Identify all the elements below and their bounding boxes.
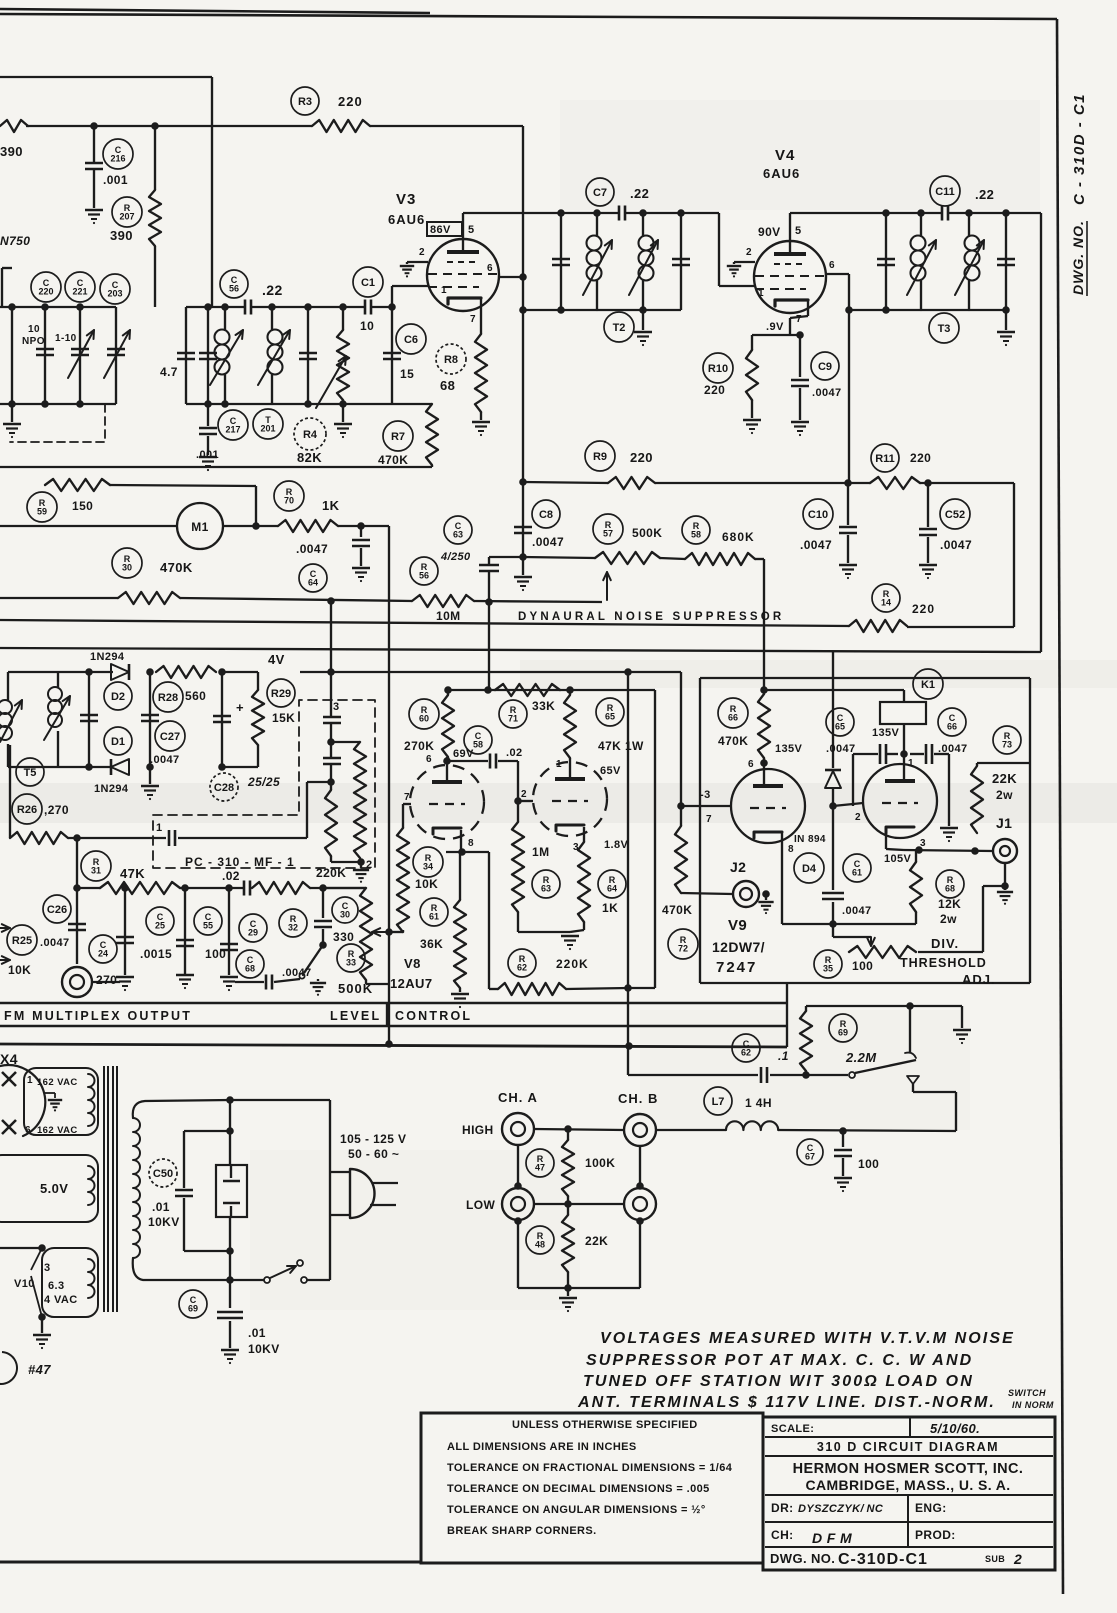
wire group2 bottom y404 [186, 403, 432, 405]
node 2 terminal [357, 858, 365, 866]
ground [317, 979, 319, 981]
variable resistor R4 82K [342, 307, 344, 330]
svg-text:V9: V9 [728, 917, 747, 934]
svg-text:100: 100 [858, 1157, 879, 1171]
capacitor C8 .0047 [514, 526, 532, 529]
resistor R73 22K 2W [971, 766, 983, 833]
svg-text:IN NORM: IN NORM [1012, 1400, 1054, 1410]
svg-text:C26: C26 [47, 904, 67, 916]
svg-text:NPO: NPO [22, 336, 45, 347]
svg-text:67: 67 [805, 1152, 815, 1162]
resistor R11 220 [870, 477, 920, 489]
jack CH.A low [502, 1188, 534, 1220]
svg-text:.0047: .0047 [940, 538, 972, 552]
capacitor C61 .0047 [822, 892, 844, 895]
wire y598 to R56 [180, 598, 412, 601]
svg-text:1K: 1K [322, 498, 340, 513]
wire long vertical x389 [388, 526, 390, 1044]
svg-text:63: 63 [453, 530, 463, 540]
T2 variable inductor [593, 209, 601, 217]
svg-text:7: 7 [470, 314, 476, 325]
svg-text:TOLERANCE ON ANGULAR DIMENSION: TOLERANCE ON ANGULAR DIMENSIONS = ½° [447, 1504, 706, 1516]
wire C63 column to V8 grid row [488, 602, 490, 690]
capacitor C30 330 [322, 888, 324, 918]
wire primary bottom [133, 1258, 230, 1280]
label T5 [16, 758, 44, 786]
wire plug riser [329, 1100, 331, 1218]
svg-text:56: 56 [229, 284, 239, 294]
ground [360, 862, 362, 868]
wire x628 drop [627, 672, 629, 1075]
rectifier V10 envelope [0, 1065, 45, 1136]
svg-text:.0047: .0047 [282, 967, 312, 979]
node [760, 759, 768, 767]
wire V8 box bottom [628, 987, 655, 989]
svg-text:.02: .02 [222, 869, 240, 883]
wire V9 box top y678 [700, 677, 1030, 679]
wire V4 cathode pin7 [807, 300, 809, 316]
svg-text:-3: -3 [700, 789, 711, 801]
capacitor C62 .1 [760, 1067, 763, 1083]
ground [342, 404, 344, 422]
svg-text:6: 6 [426, 754, 432, 765]
node [564, 1200, 572, 1208]
capacitor C9 .0047 [799, 335, 801, 377]
svg-text:SCALE:: SCALE: [771, 1423, 814, 1435]
capacitor C50 .01 10KV [184, 1130, 230, 1132]
wire grid to tube [681, 805, 731, 807]
svg-text:7247: 7247 [716, 959, 757, 976]
svg-text:.1: .1 [778, 1049, 789, 1063]
node [385, 1040, 393, 1048]
sheet top border [0, 9, 430, 13]
svg-text:73: 73 [1002, 740, 1012, 750]
resistor R28 560 [156, 666, 216, 678]
svg-text:.0047: .0047 [826, 743, 856, 755]
T5 secondary variable inductor [57, 672, 59, 687]
HV winding bumps [88, 1074, 95, 1126]
svg-text:V3: V3 [396, 191, 416, 208]
svg-text:V8: V8 [404, 956, 421, 971]
resistor R57 500K [595, 552, 660, 564]
T3 ground [1005, 310, 1007, 330]
resistor (module) [331, 741, 360, 743]
svg-text:.0047: .0047 [938, 743, 968, 755]
capacitor C25 .0015 [184, 888, 186, 975]
ground cathode V8-2 [518, 931, 570, 933]
wire switch to plug [307, 1279, 330, 1281]
input arrow [0, 927, 10, 929]
svg-text:PROD:: PROD: [915, 1528, 956, 1542]
capacitor C67 100 [842, 1131, 844, 1147]
node [458, 848, 466, 856]
svg-text:65V: 65V [600, 765, 621, 777]
ground [451, 993, 469, 995]
transformer T5 primary coil [7, 672, 9, 700]
node [514, 1182, 522, 1190]
node [514, 797, 522, 805]
svg-text:J2: J2 [730, 859, 746, 875]
capacitor C1 10 [364, 300, 367, 315]
svg-text:HIGH: HIGH [462, 1123, 494, 1137]
resistor R207 390 [154, 126, 156, 190]
svg-text:14: 14 [881, 598, 891, 608]
transformer T3 left capacitor [882, 209, 890, 217]
ground [961, 1006, 963, 1028]
svg-text:2.2M: 2.2M [845, 1050, 877, 1065]
node [204, 400, 212, 408]
resistor R69 2.2M [800, 1011, 812, 1071]
svg-text:SUPPRESSOR POT AT MAX. C.: SUPPRESSOR POT AT MAX. C. C. W AND [586, 1352, 973, 1369]
wire R58 to R66 [660, 558, 685, 559]
svg-text:330: 330 [333, 930, 354, 944]
svg-text:10K: 10K [8, 963, 31, 977]
svg-text:47K: 47K [120, 866, 145, 881]
wire R33 bottom [365, 980, 367, 984]
wire [310, 887, 366, 889]
wire V3 pin6 screen [499, 276, 523, 278]
resistor R3 220 [312, 120, 370, 132]
diode D4 IN894 [832, 652, 834, 768]
jack CH.B high [624, 1114, 656, 1146]
band rule bottom y1026 [0, 1025, 787, 1027]
svg-text:69V: 69V [453, 748, 474, 760]
wire V8-1 cathode [460, 830, 462, 852]
svg-text:203: 203 [107, 289, 122, 299]
label T3 [929, 313, 959, 343]
wire module cap column x331 [330, 601, 332, 716]
node [327, 668, 335, 676]
resistor R63 1M [512, 822, 524, 912]
node [844, 479, 852, 487]
pilot lamp #47 [0, 1352, 17, 1384]
svg-text:.0047: .0047 [842, 905, 872, 917]
svg-text:105 - 125 V: 105 - 125 V [340, 1132, 406, 1146]
svg-text:R8: R8 [444, 354, 458, 366]
wire R57 R58 row [523, 557, 595, 558]
heavy line y1044 [0, 1044, 787, 1047]
svg-text:LOW: LOW [466, 1198, 495, 1212]
svg-text:25/25: 25/25 [247, 775, 280, 789]
node [226, 1127, 234, 1135]
capacitor [149, 672, 151, 767]
inductor L7 14H [726, 1121, 778, 1130]
svg-text:221: 221 [72, 287, 87, 297]
label T2 [604, 312, 634, 342]
wiper arrow R33 [372, 931, 389, 933]
svg-text:DYSZCZYK/ NC: DYSZCZYK/ NC [798, 1503, 884, 1515]
wire meter line y526 [0, 525, 177, 527]
svg-text:.001: .001 [103, 173, 128, 187]
capacitor C11 .22 [941, 206, 944, 221]
capacitor C68 .0047 [235, 981, 264, 983]
resistor R59 150 [45, 479, 110, 491]
svg-text:.0015: .0015 [140, 947, 172, 961]
wire V9 box left x700 [699, 678, 701, 983]
svg-text:.22: .22 [975, 187, 994, 202]
resistor R66 470K [758, 694, 770, 758]
svg-text:61: 61 [429, 912, 439, 922]
capacitor C26 .0047 [76, 888, 78, 964]
resistor R7 470K [426, 404, 438, 465]
ground [176, 974, 194, 976]
svg-text:65: 65 [605, 712, 615, 722]
resistor R31 47K [76, 838, 78, 888]
svg-text:47K 1W: 47K 1W [598, 739, 644, 753]
wire relay to plate [903, 724, 905, 752]
node [41, 303, 49, 311]
svg-text:60: 60 [419, 714, 429, 724]
node [636, 1182, 644, 1190]
svg-text:31: 31 [91, 866, 101, 876]
svg-text:58: 58 [691, 530, 701, 540]
svg-text:R4: R4 [303, 429, 318, 441]
ground [11, 404, 13, 422]
ground C66 [940, 827, 958, 829]
node [76, 303, 84, 311]
capacitor [207, 307, 209, 404]
wire group1 bottom y404 [0, 403, 116, 405]
svg-text:.01: .01 [152, 1200, 170, 1214]
svg-text:C6: C6 [404, 334, 418, 346]
svg-text:68: 68 [945, 884, 955, 894]
capacitor C7 .22 [618, 206, 621, 221]
svg-text:DWG. NO.: DWG. NO. [1070, 220, 1086, 295]
svg-text:6AU6: 6AU6 [388, 212, 425, 227]
title dr divider [907, 1495, 909, 1547]
label R25 10K [7, 925, 37, 955]
svg-text:390: 390 [110, 228, 133, 243]
node [319, 941, 327, 949]
wire J1 ground [1004, 863, 1006, 884]
svg-text:5.0V: 5.0V [40, 1181, 68, 1196]
sheet bottom border left segment [0, 1561, 421, 1564]
wire R9 line y482 [523, 482, 608, 483]
svg-text:1.8V: 1.8V [604, 839, 628, 851]
svg-text:SUB: SUB [985, 1554, 1005, 1564]
wire V4 screen drop x849 [848, 310, 850, 482]
svg-text:.22: .22 [262, 282, 283, 298]
svg-text:+: + [236, 700, 244, 715]
T2 bottom wire [523, 309, 681, 311]
dashed box corner [10, 404, 105, 442]
svg-text:1N294: 1N294 [94, 783, 129, 795]
wire pin8 drop to R62 [488, 852, 490, 989]
node [906, 1002, 914, 1010]
svg-text:D4: D4 [802, 863, 817, 875]
pin2 grid ground [407, 261, 428, 263]
resistor R30 470K [0, 597, 118, 599]
node [677, 802, 685, 810]
wire CH vertical A [517, 1145, 519, 1188]
node [519, 553, 527, 561]
wire front-end group1 top y307 [0, 306, 116, 308]
wire R59 to M1 node [110, 485, 256, 486]
node [762, 890, 770, 898]
wire [567, 1272, 569, 1288]
svg-text:10M: 10M [436, 609, 461, 623]
svg-text:57: 57 [603, 529, 613, 539]
jack J1 [993, 839, 1017, 863]
power switch [230, 1279, 264, 1281]
svg-text:12AU7: 12AU7 [390, 976, 432, 991]
wire R26 row [9, 745, 11, 838]
tube V9 triode 2 (relay driver) [863, 764, 937, 838]
node [802, 1071, 810, 1079]
svg-text:82K: 82K [297, 450, 322, 465]
capacitor C56 .22 [244, 300, 247, 315]
node [385, 928, 393, 936]
svg-text:100: 100 [852, 959, 873, 973]
input arrow [0, 959, 10, 961]
capacitor C10 .0047 [847, 483, 849, 525]
svg-text:D2: D2 [111, 691, 125, 703]
title scale divider [909, 1417, 911, 1437]
svg-text:ENG:: ENG: [915, 1501, 947, 1515]
svg-text:47: 47 [535, 1163, 545, 1173]
svg-text:DR:: DR: [771, 1501, 794, 1515]
meter M1 [177, 503, 223, 549]
svg-text:D F M: D F M [812, 1530, 852, 1546]
capacitor C217 .001 [207, 404, 209, 426]
primary winding [133, 1118, 140, 1258]
svg-text:6.3: 6.3 [48, 1280, 65, 1292]
svg-text:61: 61 [852, 868, 862, 878]
svg-text:2: 2 [521, 789, 527, 800]
wire to C62 [628, 1074, 758, 1076]
svg-text:C1: C1 [361, 277, 375, 289]
heater winding bumps [88, 1259, 95, 1298]
svg-text:.02: .02 [506, 747, 523, 759]
svg-text:62: 62 [517, 963, 527, 973]
svg-text:2: 2 [855, 812, 861, 823]
ground [116, 976, 134, 978]
capacitor [323, 757, 341, 760]
potentiometer wiper arrow R57 [606, 572, 608, 600]
tolerance box [421, 1413, 763, 1563]
svg-text:C27: C27 [160, 731, 180, 743]
svg-text:C11: C11 [935, 186, 955, 198]
svg-text:71: 71 [508, 714, 518, 724]
resistor R32 220K [252, 882, 310, 894]
svg-text:1: 1 [27, 1075, 33, 1086]
tube V9 triode 1 (12DW7) [731, 769, 805, 843]
svg-text:CAMBRIDGE, MASS., U. S. A.: CAMBRIDGE, MASS., U. S. A. [805, 1477, 1010, 1493]
transformer T2 left capacitor [557, 209, 565, 217]
svg-text:PC - 310 - MF - 1: PC - 310 - MF - 1 [185, 855, 295, 869]
ground J2 [765, 894, 767, 900]
svg-text:30: 30 [122, 563, 132, 573]
svg-text:R3: R3 [298, 96, 312, 108]
node [38, 1244, 46, 1252]
svg-text:65: 65 [835, 722, 845, 732]
capacitor C55 100 [228, 888, 230, 975]
svg-text:C - 310D - C1: C - 310D - C1 [1071, 93, 1088, 205]
wire L7 to switch riser [778, 1130, 956, 1131]
node [357, 522, 365, 530]
svg-text:#47: #47 [28, 1362, 51, 1377]
svg-text:500K: 500K [632, 526, 662, 540]
svg-text:220: 220 [338, 94, 363, 109]
T3 right capacitor [1002, 209, 1010, 217]
svg-text:10: 10 [28, 324, 40, 335]
relay K1 coil feed [764, 689, 904, 691]
div threshold wiring [983, 885, 1005, 887]
svg-text:DWG. NO.: DWG. NO. [770, 1551, 835, 1566]
svg-text:C28: C28 [214, 782, 234, 794]
resistor R9 220 [608, 477, 655, 489]
svg-text:.0047: .0047 [296, 542, 328, 556]
svg-text:L7: L7 [712, 1096, 725, 1108]
jack CH.B low [624, 1188, 656, 1220]
svg-text:66: 66 [947, 722, 957, 732]
svg-text:33K: 33K [532, 699, 555, 713]
svg-text:DIV.: DIV. [931, 936, 959, 951]
svg-text:6AU6: 6AU6 [763, 166, 800, 181]
node [519, 273, 527, 281]
tube V8 triode 1 (12AU7) [410, 765, 484, 839]
resistor R56 10M [412, 595, 474, 607]
node [1001, 882, 1009, 890]
svg-text:34: 34 [423, 862, 433, 872]
node [73, 834, 81, 842]
wire [11, 307, 13, 404]
wire T5 bottom y767 [8, 766, 113, 768]
svg-text:1N294: 1N294 [90, 651, 125, 663]
node [146, 668, 154, 676]
svg-text:1: 1 [156, 822, 163, 834]
svg-text:M1: M1 [191, 520, 208, 534]
transformer core [103, 1066, 105, 1312]
svg-text:4 VAC: 4 VAC [44, 1294, 78, 1306]
resistor R65 47K 1W [564, 695, 576, 758]
svg-text:56: 56 [419, 571, 429, 581]
capacitor 4.7 [177, 352, 195, 355]
svg-text:CH. A: CH. A [498, 1090, 538, 1105]
svg-text:4/250: 4/250 [440, 551, 471, 563]
svg-text:55: 55 [203, 921, 213, 931]
svg-text:2: 2 [746, 247, 752, 258]
svg-text:3: 3 [573, 842, 579, 853]
resistor R8 68 [475, 334, 487, 412]
spark gap [216, 1165, 247, 1217]
svg-text:30: 30 [340, 910, 350, 920]
node [121, 884, 129, 892]
svg-text:68: 68 [245, 964, 255, 974]
svg-text:R9: R9 [593, 451, 607, 463]
svg-text:220: 220 [704, 383, 725, 397]
svg-text:59: 59 [37, 507, 47, 517]
svg-text:THRESHOLD: THRESHOLD [900, 956, 987, 970]
svg-text:1K: 1K [602, 901, 618, 915]
svg-text:C52: C52 [945, 509, 965, 521]
tube V3 6AU6 [427, 239, 499, 311]
wire CH.B vertical [639, 1146, 641, 1188]
svg-text:100: 100 [205, 947, 226, 961]
svg-text:70: 70 [284, 496, 294, 506]
node [900, 750, 908, 758]
antenna contact triangle [907, 1076, 919, 1084]
ground V10 [41, 1317, 43, 1333]
ground [149, 767, 151, 784]
wire to R57 wiper [474, 601, 602, 602]
svg-text:7: 7 [796, 314, 802, 325]
wire [330, 723, 332, 757]
svg-text:3: 3 [44, 1262, 51, 1274]
wire x787 to heavy line [786, 983, 788, 1047]
svg-text:,270: ,270 [44, 803, 69, 817]
capacitor C6 15 [391, 307, 393, 404]
